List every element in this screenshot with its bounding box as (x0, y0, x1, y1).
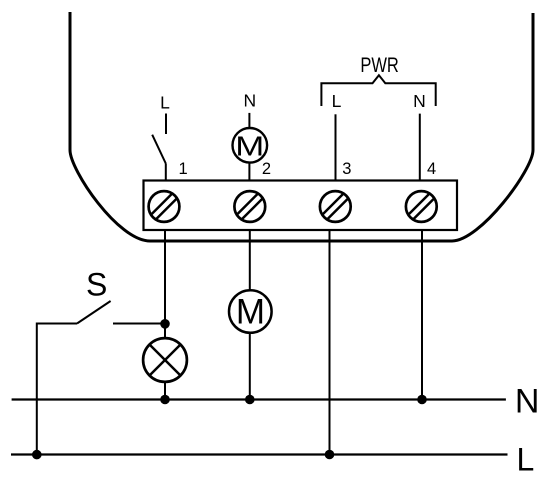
junction terminal 3 on L bus (325, 450, 335, 460)
wire L stub (165, 114, 167, 135)
junction motor M2 on N bus (245, 395, 255, 405)
wire motor M2 to N bus (249, 333, 251, 400)
terminal screw 1 (149, 191, 180, 222)
terminal screw 2 (234, 191, 265, 222)
L bus line (11, 453, 508, 455)
wire PWR N to terminal 4 (419, 114, 421, 181)
svg-text:L: L (160, 93, 170, 113)
terminal screw 4 (406, 191, 437, 222)
internal switch contact blade (152, 135, 166, 164)
svg-text:N: N (515, 383, 540, 421)
switch S left wire (37, 324, 77, 455)
svg-text:M: M (236, 292, 265, 331)
wire terminal 1 down to lamp (164, 230, 166, 339)
terminal screw 3 (320, 191, 351, 222)
wire terminal 2 down to motor M2 (249, 230, 251, 291)
junction switch S / lamp (160, 319, 170, 329)
terminal block (144, 181, 458, 231)
switch S blade (77, 301, 111, 324)
svg-text:1: 1 (179, 160, 188, 178)
svg-text:L: L (332, 91, 342, 111)
svg-text:N: N (413, 91, 426, 111)
junction switch pole on L bus (32, 450, 42, 460)
svg-text:4: 4 (427, 160, 436, 178)
switch S right wire (113, 323, 165, 325)
junction terminal 4 on N bus (417, 395, 427, 405)
svg-text:2: 2 (262, 160, 271, 178)
wire terminal 3 down to L bus (329, 230, 331, 455)
wire motor M1 to terminal 2 (248, 163, 250, 181)
svg-text:PWR: PWR (360, 53, 399, 77)
svg-text:S: S (86, 267, 107, 303)
svg-text:M: M (235, 130, 264, 161)
wire switch to terminal 1 (165, 164, 167, 182)
PWR bracket (321, 75, 435, 106)
svg-text:3: 3 (342, 160, 351, 178)
lamp E1 (143, 338, 187, 382)
N bus line (12, 398, 506, 400)
wire terminal 4 down to N bus (421, 230, 423, 400)
wire PWR L to terminal 3 (335, 114, 337, 181)
device enclosure outline (70, 12, 533, 241)
svg-text:L: L (517, 442, 535, 478)
motor M2 (229, 290, 272, 333)
motor M1 (233, 128, 268, 163)
junction lamp on N bus (160, 395, 170, 405)
svg-text:N: N (243, 91, 256, 111)
wire lamp to N bus (164, 382, 166, 400)
wire N stub to motor M1 (248, 113, 250, 129)
